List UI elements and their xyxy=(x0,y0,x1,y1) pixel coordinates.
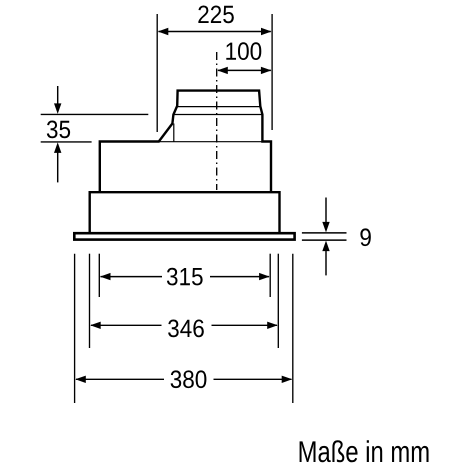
dim 225 line xyxy=(159,31,271,33)
dim 315 left arrowhead xyxy=(100,273,111,280)
dim 35 top extension line xyxy=(41,113,149,115)
hood upper body outline xyxy=(100,91,271,193)
dim 315 line left segment xyxy=(101,276,163,278)
dim 315 label xyxy=(167,268,203,286)
dim 346 right arrowhead xyxy=(267,322,278,329)
dim 35 top arrow shaft xyxy=(57,86,59,104)
body top edge thin line xyxy=(159,141,263,143)
dim 380 label xyxy=(171,370,207,388)
dim 9 top extension line xyxy=(302,232,347,234)
dim 225 left arrowhead xyxy=(158,28,169,35)
dim 225 label xyxy=(198,6,233,24)
dim 346 left arrowhead xyxy=(90,322,101,329)
dim 346 line left segment xyxy=(91,324,162,326)
dim 9 bottom extension line xyxy=(302,239,347,241)
dim 225 left extension line xyxy=(156,14,158,132)
dim 315 right extension line xyxy=(269,254,271,297)
bottom flange xyxy=(74,233,294,239)
dim 100 line xyxy=(218,69,271,71)
dim 100 left arrowhead xyxy=(217,67,228,74)
dim 346 right extension line xyxy=(277,254,279,348)
dim 315 right arrowhead xyxy=(259,273,270,280)
dim 315 left extension line xyxy=(98,254,100,297)
hood mid box outline xyxy=(90,192,280,233)
dim 315 line right segment xyxy=(210,276,269,278)
dim 35 label xyxy=(47,121,70,139)
center line (dash-dot) xyxy=(216,52,218,190)
dim 100 label xyxy=(226,42,261,60)
dim 35 bottom arrow shaft xyxy=(57,153,59,183)
dim 380 right arrowhead xyxy=(282,376,293,383)
dim 225 right arrowhead xyxy=(261,28,272,35)
dim 9 bottom arrowhead xyxy=(322,241,329,252)
dim 225 right extension line xyxy=(271,14,273,130)
dim 380 line left segment xyxy=(76,378,164,380)
dim 380 right extension line xyxy=(292,254,294,403)
dim 346 left extension line xyxy=(89,254,91,348)
collar flange top thin line xyxy=(177,106,260,108)
caption Masse in mm xyxy=(300,440,429,462)
dim 346 label xyxy=(168,320,204,338)
dim 35 bottom extension line xyxy=(41,141,92,143)
dim 9 bottom arrow shaft xyxy=(325,251,327,276)
collar flange bottom thin line xyxy=(173,114,262,116)
chamfer corner edge thin line xyxy=(173,124,175,142)
dim 380 left extension line xyxy=(74,254,76,403)
dim 35 top arrowhead xyxy=(54,103,61,114)
dim 346 line right segment xyxy=(212,324,278,326)
dim 9 label xyxy=(360,228,370,246)
dim 380 left arrowhead xyxy=(75,376,86,383)
dim 35 bottom arrowhead xyxy=(54,142,61,153)
dim 380 line right segment xyxy=(214,378,292,380)
dim 9 top arrowhead xyxy=(322,222,329,233)
dim 9 top arrow shaft xyxy=(325,198,327,224)
dim 100 right arrowhead xyxy=(261,67,272,74)
